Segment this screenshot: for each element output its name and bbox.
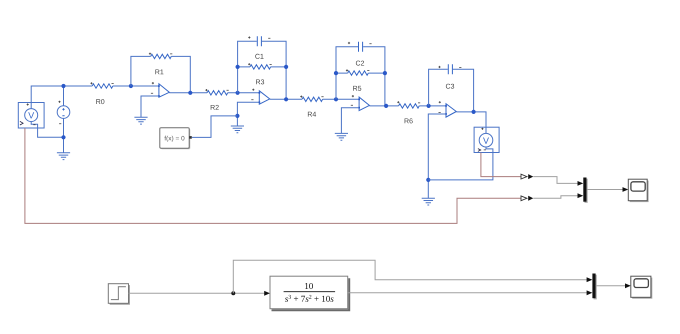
mux Mux1 [583,178,587,203]
op-amp U1 [151,82,169,97]
wire U2 minus to ground node [237,102,259,126]
wire C3 feedback frame [429,69,474,112]
node solver-ground junction [235,114,239,118]
wire solver to ground node [192,116,238,137]
voltage sensor V1 [18,103,44,129]
voltage sensor V2 [474,127,499,152]
ground G1 [134,117,147,124]
resistor R2 [205,89,228,110]
wire U4 output to V2 [456,112,486,127]
capacitor C1 [248,36,270,84]
wire C1-R3 feedback frame [238,41,287,99]
wire mux2 to scope2 [596,283,631,288]
wire U1 minus to ground [141,96,159,117]
op-amp U2 [251,89,269,105]
resistor R1 [149,53,172,75]
scope Scope2 [631,276,653,299]
node R6-right junction [427,104,431,108]
node U1 output junction [188,91,192,95]
wire main input net [31,86,159,103]
scope Scope1 [628,179,648,202]
node U4 output junction [472,110,476,114]
op-amp U3 [351,95,370,111]
ground G4 [422,198,435,205]
node ground4 junction [426,178,430,182]
wire U3 output [369,105,446,107]
op-amp U4 [439,101,457,117]
wire R1 feedback loop [131,56,190,92]
ground G3 [335,133,348,140]
wire V2 signal out (physical signal) [481,153,521,177]
resistor R4 [300,86,361,102]
mux Mux2 [592,274,596,300]
solver block f(x)=0 [160,128,192,150]
converter PS2 [521,196,533,201]
node step branch junction [231,291,235,295]
step block Step [108,284,130,305]
wire branch to mux2 [233,260,592,293]
capacitor C3 [438,64,461,88]
converter PS1 [521,174,533,179]
node U3 output junction [384,104,388,108]
wire PS2 to mux1 [533,193,583,198]
resistor R5 [255,54,369,75]
node source-plus junction [61,84,65,88]
wire ground node to V2 minus [428,153,493,180]
ground G2 [231,126,244,133]
wire U1 output [169,92,259,94]
wire C2-R5 feedback frame [336,47,385,106]
wire TF output to mux2 [348,290,593,295]
ground G-source [57,153,70,160]
node R3-left junction [236,65,240,69]
wire U4 minus to ground node [428,114,446,198]
node R3-right junction [284,65,288,69]
wire V1 minus to source ground node [38,128,64,137]
wire step output [129,291,271,296]
resistor R6 [356,61,420,108]
resistor R3 [248,63,316,117]
node R5-right junction [383,71,387,75]
wire U3 minus to ground [341,108,359,134]
wire PS1 to mux1 [533,177,583,186]
node R5-left junction [334,71,338,75]
wire U2 output [270,98,359,100]
node U2 output junction [284,97,288,101]
node R4-right junction [334,97,338,101]
wire V1 signal out (physical signal) [25,128,521,223]
wire mux1 to scope1 [587,187,629,192]
transfer function block [270,276,349,310]
node source-minus junction [61,135,65,139]
voltage source VS [57,86,70,153]
capacitor C2 [348,42,413,124]
resistor R0 [90,82,113,104]
node R0-R1 junction [129,84,133,88]
node R2-right junction [236,91,240,95]
